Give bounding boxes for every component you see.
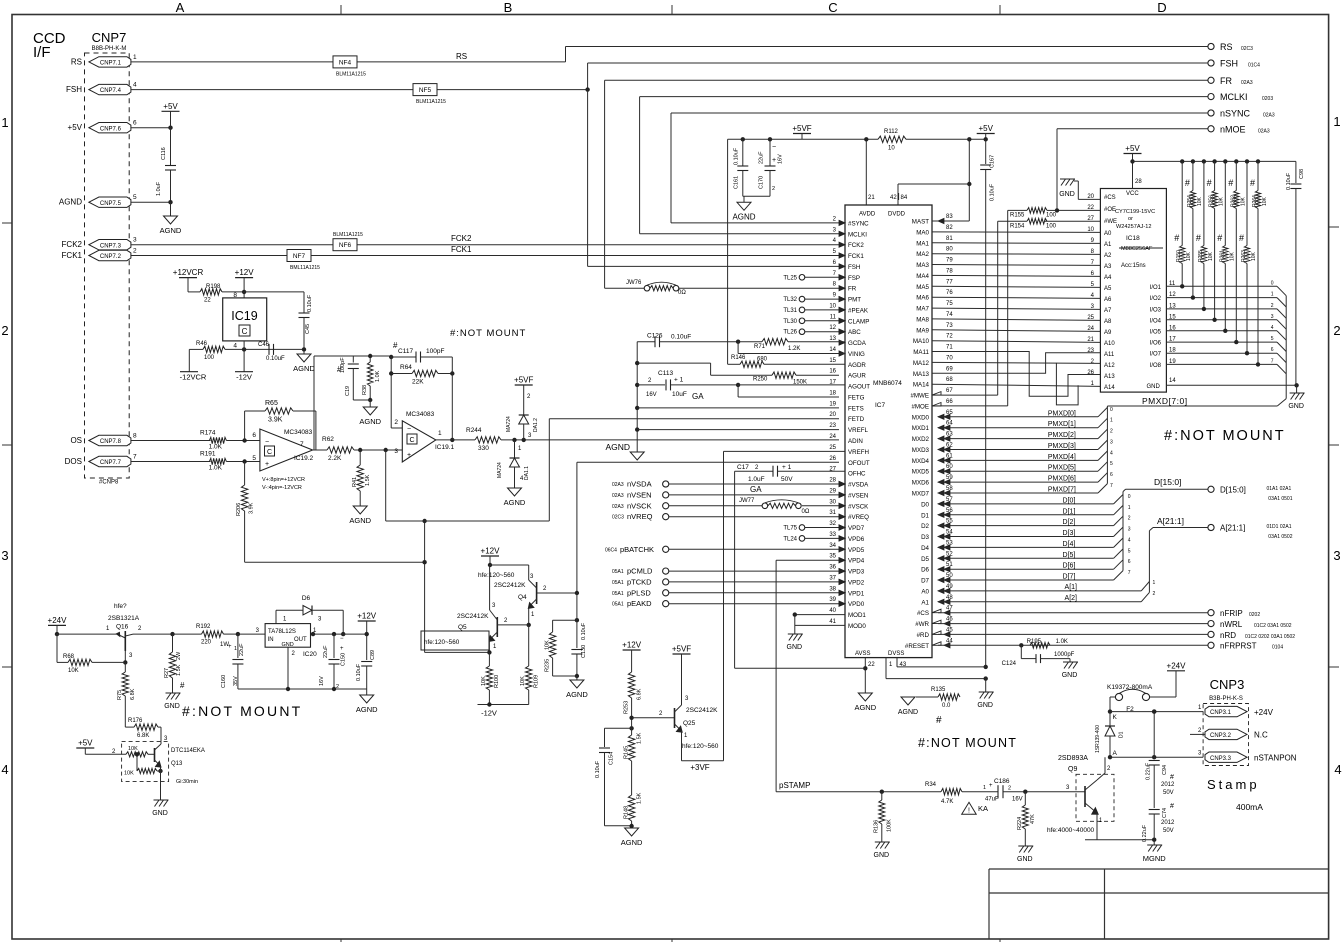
svg-text:hfe:120~560: hfe:120~560: [424, 639, 460, 646]
svg-text:FCK2: FCK2: [451, 234, 472, 243]
wire Q25 emitter to +3VF / VREFH: [681, 731, 683, 761]
svg-text:R154: R154: [1010, 223, 1025, 229]
svg-text:I/O2: I/O2: [1150, 296, 1162, 302]
svg-text:A13: A13: [1104, 374, 1115, 380]
svg-text:#WR: #WR: [915, 621, 929, 628]
wire AGND from CNP7.5: [131, 201, 171, 203]
svg-text:I/O4: I/O4: [1150, 318, 1162, 324]
resistor R68 10K: [56, 634, 58, 662]
svg-text:nSTANPON: nSTANPON: [1254, 753, 1297, 762]
power +12V (IC20 out): [358, 620, 376, 622]
svg-text:Q5: Q5: [458, 624, 467, 631]
svg-text:GND: GND: [787, 644, 803, 651]
svg-text:#RD: #RD: [917, 632, 930, 639]
svg-text:C98: C98: [1299, 169, 1305, 179]
wire OFOUT row to C130: [577, 461, 839, 463]
svg-text:AGND: AGND: [349, 516, 371, 525]
svg-text:1.0uF: 1.0uF: [156, 181, 162, 196]
svg-text:C19: C19: [345, 386, 351, 396]
svg-text:0Ω: 0Ω: [802, 509, 810, 515]
svg-text:74: 74: [946, 312, 953, 318]
svg-text:0.10uF: 0.10uF: [356, 663, 362, 681]
wire nRD: [938, 633, 1208, 635]
capacitor C17 1.0uF 50V (OFHC): [734, 471, 736, 668]
svg-text:38: 38: [829, 586, 836, 592]
capacitor C94 0.22uF 2012 50V: [1153, 712, 1155, 759]
wire D5 / D[5]: [938, 557, 1114, 559]
resistor R71 1.2K (GCDA): [738, 341, 762, 343]
svg-text:MA11: MA11: [913, 349, 929, 356]
resistor R250 150K (AGUR): [772, 372, 796, 378]
svg-text:MA8: MA8: [916, 316, 929, 323]
svg-text:22uF: 22uF: [239, 643, 245, 656]
svg-text:VPD1: VPD1: [848, 590, 865, 597]
svg-text:R109: R109: [534, 675, 540, 688]
svg-text:#:NOT MOUNT: #:NOT MOUNT: [1164, 428, 1286, 444]
wire pSTAMP: [776, 791, 941, 793]
svg-text:GA: GA: [692, 392, 704, 401]
svg-text:80: 80: [946, 247, 953, 253]
power +5VF (Q25): [673, 653, 691, 655]
svg-text:6: 6: [1110, 472, 1113, 478]
svg-text:TL31: TL31: [783, 308, 797, 314]
svg-text:MA1: MA1: [916, 240, 929, 247]
svg-text:#:NOT MOUNT: #:NOT MOUNT: [450, 328, 526, 339]
svg-text:hfe:120~560: hfe:120~560: [682, 743, 719, 750]
svg-text:6.8K: 6.8K: [637, 688, 643, 700]
svg-text:67: 67: [946, 388, 953, 394]
svg-text:10uF: 10uF: [672, 391, 687, 398]
svg-text:A5: A5: [1104, 286, 1112, 292]
svg-text:70: 70: [946, 355, 953, 361]
svg-text:2: 2: [1271, 303, 1274, 309]
svg-text:R254: R254: [1187, 195, 1193, 207]
resistor R38 1.0K: [369, 356, 371, 362]
svg-text:DVSS: DVSS: [888, 651, 904, 657]
wire opamp out: [313, 449, 327, 451]
svg-text:23: 23: [829, 423, 836, 429]
ground AGND (R148): [625, 828, 639, 836]
svg-text:FR: FR: [1220, 76, 1232, 86]
svg-text:B: B: [504, 0, 513, 15]
svg-text:19: 19: [829, 401, 836, 407]
svg-text:D3: D3: [921, 534, 929, 541]
svg-text:-12V: -12V: [481, 709, 497, 718]
svg-text:2W: 2W: [176, 651, 182, 660]
svg-text:+: +: [265, 461, 269, 468]
DVDD stem pins 42 84: [897, 184, 899, 205]
svg-text:100pF: 100pF: [426, 348, 444, 355]
svg-text:5: 5: [133, 194, 137, 201]
Q13 input resistor 10K: [126, 752, 148, 757]
svg-text:D5: D5: [921, 556, 929, 563]
svg-text:C124: C124: [1002, 661, 1017, 667]
svg-text:R46: R46: [196, 341, 208, 347]
bus ramp I/O6 bit 5: [1277, 342, 1286, 351]
svg-text:1: 1: [234, 646, 237, 652]
wire MXD6 / PMXD[6]: [938, 481, 1098, 483]
svg-text:C186: C186: [994, 778, 1010, 785]
svg-text:R41: R41: [352, 477, 358, 487]
svg-text:#SYNC: #SYNC: [848, 220, 869, 227]
svg-text:-12V: -12V: [236, 373, 252, 382]
svg-text:37: 37: [829, 575, 836, 581]
svg-text:3.9K: 3.9K: [249, 502, 255, 514]
svg-text:#: #: [1217, 233, 1222, 243]
svg-text:2: 2: [1008, 786, 1011, 792]
svg-text:C17: C17: [737, 464, 749, 471]
svg-text:22K: 22K: [412, 379, 424, 386]
capacitor C150 22uF 16V: [333, 634, 335, 658]
svg-text:A9: A9: [1104, 330, 1112, 336]
bus ramp I/O3 bit 2: [1277, 309, 1286, 318]
svg-text:hfe:120~560: hfe:120~560: [478, 572, 515, 579]
wire MA14 to A14: [932, 384, 1100, 386]
svg-text:A2: A2: [1104, 253, 1112, 259]
svg-text:D[1]: D[1]: [1063, 508, 1076, 515]
resistor R256 10K pullup: [1212, 159, 1216, 163]
svg-text:D[2]: D[2]: [1063, 519, 1076, 526]
svg-text:−: −: [772, 144, 776, 151]
svg-text:MXD5: MXD5: [912, 469, 930, 476]
svg-text:#MOE: #MOE: [911, 404, 929, 411]
bus ramp I/O8 bit 7: [1277, 364, 1286, 373]
svg-text:2SB1321A: 2SB1321A: [108, 615, 140, 622]
svg-text:R155: R155: [1010, 213, 1025, 219]
svg-text:MOD1: MOD1: [848, 612, 866, 619]
Q16 collector wire: [133, 633, 173, 635]
wire GCDA node to VINIG: [737, 342, 739, 354]
svg-text:RS: RS: [71, 57, 82, 66]
svg-text:R235: R235: [545, 659, 551, 672]
svg-text:16V: 16V: [778, 154, 784, 164]
svg-text:GND: GND: [1017, 856, 1033, 863]
svg-text:1.5K: 1.5K: [637, 792, 643, 804]
svg-text:#: #: [1170, 803, 1174, 810]
power +12VCR: [179, 277, 197, 279]
svg-text:D0: D0: [921, 501, 929, 508]
resistor R192 220 1W: [202, 631, 224, 637]
svg-text:VPD5: VPD5: [848, 547, 865, 554]
svg-text:MXD6: MXD6: [912, 480, 930, 487]
wire FSH from CNP7.4: [131, 89, 413, 91]
svg-text:A: A: [1113, 750, 1118, 757]
svg-text:PMXD[4]: PMXD[4]: [1048, 454, 1076, 461]
svg-text:PMT: PMT: [848, 297, 861, 304]
connector pin CNP7.1 (RS): [89, 57, 131, 67]
svg-text:A[21:1]: A[21:1]: [1157, 516, 1184, 526]
svg-text:5: 5: [1110, 461, 1113, 467]
svg-text:AGOUT: AGOUT: [848, 384, 870, 391]
resistor R145 1.5K: [631, 726, 633, 735]
svg-text:K: K: [1113, 714, 1118, 721]
svg-text:PMXD[1]: PMXD[1]: [1048, 421, 1076, 428]
svg-text:68: 68: [946, 377, 953, 383]
resistor R195 1.0K: [1026, 636, 1082, 644]
wire D2 / D[2]: [938, 525, 1114, 527]
svg-text:I/O8: I/O8: [1150, 363, 1162, 369]
svg-text:26: 26: [829, 456, 836, 462]
svg-text:!: !: [968, 808, 970, 815]
svg-text:D1: D1: [1119, 731, 1125, 738]
svg-text:3: 3: [1333, 548, 1340, 563]
svg-text:AGND: AGND: [854, 703, 876, 712]
svg-text:GND: GND: [874, 852, 890, 859]
svg-text:RS: RS: [1220, 42, 1233, 52]
svg-text:AGND: AGND: [621, 838, 643, 847]
svg-text:MA4: MA4: [916, 273, 929, 280]
svg-text:pCMLD: pCMLD: [627, 567, 653, 576]
svg-text:D2: D2: [921, 523, 929, 530]
wire R155 to IC7 #MOE: [1007, 210, 1009, 406]
DVSS pin 1: [885, 658, 887, 679]
svg-text:BML11A1215: BML11A1215: [290, 265, 320, 271]
bus ramp I/O4 bit 3: [1277, 320, 1286, 329]
svg-text:OS: OS: [70, 436, 82, 445]
svg-text:−: −: [407, 426, 411, 433]
wire OS to R174: [131, 440, 211, 442]
svg-text:MGND: MGND: [1143, 854, 1166, 863]
svg-text:MCLKI: MCLKI: [848, 231, 867, 238]
svg-text:#: #: [1207, 178, 1212, 188]
svg-text:#CNP8: #CNP8: [99, 480, 119, 486]
svg-text:R255: R255: [1198, 250, 1204, 262]
Q13 transistor element: [154, 748, 156, 762]
svg-text:OUT: OUT: [294, 637, 307, 643]
svg-text:03A1 0501: 03A1 0501: [1268, 496, 1292, 502]
capacitor C186 47uF 16V: [997, 785, 999, 798]
svg-text:0.10uF: 0.10uF: [595, 760, 601, 778]
svg-text:hfe?: hfe?: [114, 603, 127, 610]
svg-text:-12VCR: -12VCR: [180, 373, 207, 382]
svg-text:#:NOT MOUNT: #:NOT MOUNT: [918, 736, 1017, 750]
svg-text:MXD2: MXD2: [912, 436, 930, 443]
svg-text:AGND: AGND: [732, 212, 755, 221]
resistor R41 1.5K to AGND: [359, 450, 361, 465]
svg-text:CNP7.7: CNP7.7: [100, 460, 122, 466]
svg-text:10K: 10K: [1262, 196, 1268, 206]
svg-text:AGND: AGND: [59, 198, 82, 207]
svg-text:DTC114EKA: DTC114EKA: [171, 748, 205, 754]
svg-text:10K: 10K: [520, 676, 526, 686]
wire MA5 to A5: [932, 286, 1100, 287]
svg-text:28: 28: [829, 478, 836, 484]
svg-text:D[0]: D[0]: [1063, 497, 1076, 504]
svg-text:01C2 03A1 0502: 01C2 03A1 0502: [1254, 623, 1292, 629]
ground GND (Q13): [154, 800, 169, 807]
svg-text:40: 40: [829, 608, 836, 614]
ground GND (R224): [1018, 846, 1033, 853]
svg-text:A11: A11: [1104, 352, 1115, 358]
svg-text:0.22uF: 0.22uF: [1142, 824, 1148, 842]
svg-text:MXD1: MXD1: [912, 425, 930, 432]
svg-text:MOD0: MOD0: [848, 623, 866, 630]
svg-text:or: or: [1128, 216, 1133, 222]
svg-text:0: 0: [1271, 280, 1274, 286]
svg-text:50V: 50V: [781, 476, 793, 483]
svg-text:Q25: Q25: [683, 720, 696, 727]
svg-text:FR: FR: [848, 286, 857, 293]
svg-text:A0: A0: [1104, 231, 1112, 237]
svg-text:Q9: Q9: [1068, 766, 1077, 773]
svg-text:72: 72: [946, 334, 953, 340]
capacitor C98 0.10uF: [1295, 161, 1297, 183]
power +12V (R253): [623, 649, 641, 651]
svg-text:I/F: I/F: [33, 44, 51, 61]
svg-text:400mA: 400mA: [1236, 802, 1263, 812]
svg-text:24: 24: [829, 434, 836, 440]
wire MA13 crossover: [932, 353, 1100, 374]
svg-text:2SC2412K: 2SC2412K: [494, 582, 526, 589]
grid ticks bottom: [340, 939, 342, 942]
svg-text:IC7: IC7: [875, 402, 886, 409]
svg-text:R253: R253: [624, 701, 630, 714]
svg-text:77: 77: [946, 279, 953, 285]
wire MXD0 / PMXD[0]: [938, 416, 1098, 418]
svg-text:#MWE: #MWE: [910, 393, 929, 400]
terminal A[21:1]: [1208, 524, 1214, 530]
svg-text:R206: R206: [236, 503, 242, 516]
svg-text:10K: 10K: [1219, 196, 1225, 206]
svg-text:pEAKD: pEAKD: [627, 599, 652, 608]
power +5VF (diode clamp): [515, 384, 533, 386]
svg-text:100: 100: [1046, 213, 1057, 219]
bus ramp I/O7 bit 6: [1277, 353, 1286, 362]
svg-text:MCLKI: MCLKI: [1220, 92, 1248, 102]
svg-text:GND: GND: [1059, 191, 1075, 198]
wire nWRL: [938, 623, 1208, 625]
wire MOD1/MOD0 to GND: [795, 614, 845, 616]
svg-text:D[4]: D[4]: [1063, 541, 1076, 548]
svg-text:1: 1: [1128, 505, 1131, 511]
svg-text:16V: 16V: [319, 676, 325, 686]
ground MGND: [1152, 838, 1156, 842]
resistor R244 330: [475, 437, 501, 443]
svg-text:CNP3.3: CNP3.3: [1210, 756, 1232, 762]
svg-text:02A3: 02A3: [1258, 128, 1270, 134]
svg-text:0.10uF: 0.10uF: [581, 622, 587, 640]
svg-text:42: 42: [890, 195, 897, 201]
svg-text:R34: R34: [925, 782, 937, 788]
wire DOS to R191: [131, 461, 211, 463]
svg-text:05A1: 05A1: [612, 580, 624, 586]
svg-text:GND: GND: [1062, 672, 1078, 679]
+5V pullup rail: [1133, 160, 1296, 162]
svg-text:14: 14: [1169, 378, 1176, 384]
svg-text:32: 32: [829, 521, 836, 527]
svg-text:A6: A6: [1104, 297, 1112, 303]
svg-text:+5VF: +5VF: [792, 124, 811, 133]
svg-text:16V: 16V: [1012, 797, 1023, 803]
svg-text:0.10uF: 0.10uF: [266, 356, 285, 362]
terminal D[15:0]: [1208, 486, 1214, 492]
svg-text:C: C: [828, 0, 837, 15]
svg-text:2: 2: [394, 419, 398, 426]
ground AGND (DA1.1): [508, 488, 522, 496]
terminal nRD: [1208, 631, 1214, 637]
svg-text:C150: C150: [341, 653, 347, 666]
svg-text:R38: R38: [362, 385, 368, 395]
grid ticks right: [1329, 226, 1339, 228]
svg-text:B8B-PH-K-M: B8B-PH-K-M: [92, 46, 127, 52]
svg-text:100K: 100K: [887, 819, 893, 832]
IC20 output wire: [311, 633, 367, 635]
svg-text:PMXD[6]: PMXD[6]: [1048, 476, 1076, 483]
svg-text:CNP3: CNP3: [1210, 677, 1245, 692]
IC U7 MNB6074 body: [845, 205, 932, 658]
title block: [989, 868, 1329, 870]
wire MA12 to A12: [932, 362, 1100, 363]
svg-text:2: 2: [1128, 516, 1131, 522]
ground AGND (AVSS): [864, 668, 866, 693]
wire R206 node down to Q5 emitter: [424, 562, 426, 652]
svg-text:15: 15: [829, 358, 836, 364]
wire A1 / A[2]: [938, 601, 1141, 603]
svg-text:6: 6: [1271, 347, 1274, 353]
svg-text:01A1 02A1: 01A1 02A1: [1267, 486, 1292, 492]
svg-text:1: 1: [1153, 580, 1156, 586]
svg-text:DA1.1: DA1.1: [524, 466, 530, 480]
svg-text:FCK1: FCK1: [848, 253, 864, 260]
svg-text:22uF: 22uF: [323, 645, 329, 658]
svg-text:+5V: +5V: [78, 739, 93, 748]
wire opamp1 out / R244: [436, 439, 475, 441]
wire nFRPRST: [938, 644, 1208, 646]
ground AGND (R135): [901, 697, 915, 705]
power -12V (IC19): [235, 371, 253, 373]
svg-text:#VREQ: #VREQ: [848, 514, 869, 521]
resistor R100 10K: [488, 652, 490, 666]
wire MAST pin83 stub: [932, 220, 938, 222]
svg-text:06C4: 06C4: [605, 547, 617, 553]
svg-text:MA0: MA0: [916, 229, 929, 236]
+5VF rail: [728, 138, 878, 140]
svg-text:0Ω: 0Ω: [678, 290, 686, 296]
svg-text:#:NOT MOUNT: #:NOT MOUNT: [182, 703, 302, 719]
svg-text:66: 66: [946, 399, 953, 405]
svg-text:50V: 50V: [1163, 828, 1174, 834]
svg-text:R224: R224: [1017, 817, 1023, 830]
svg-text:Stamp: Stamp: [1207, 777, 1260, 792]
svg-text:MNB6074: MNB6074: [873, 380, 902, 387]
svg-text:R100: R100: [494, 675, 500, 688]
svg-text:R174: R174: [200, 430, 216, 437]
capacitor C161 0.10uF: [741, 137, 745, 141]
svg-text:A[1]: A[1]: [1065, 584, 1078, 591]
svg-text:2SC2412K: 2SC2412K: [457, 613, 489, 620]
svg-text:CNP3.1: CNP3.1: [1210, 710, 1232, 716]
svg-text:I/O3: I/O3: [1150, 307, 1162, 313]
svg-text:+: +: [772, 157, 776, 164]
svg-text:10K: 10K: [545, 640, 551, 650]
svg-text:+12V: +12V: [622, 641, 642, 650]
connector pin CNP7.3 (FCK2): [89, 240, 131, 250]
svg-text:R198: R198: [206, 284, 221, 290]
power +5V (Q13): [76, 747, 94, 749]
svg-text:V+:8pin=+12VCR: V+:8pin=+12VCR: [262, 477, 305, 483]
svg-text:CNP7.3: CNP7.3: [100, 243, 122, 249]
svg-text:3: 3: [1271, 314, 1274, 320]
svg-text:C74: C74: [1162, 808, 1168, 818]
svg-text:FCK2: FCK2: [62, 240, 83, 249]
wire RS from CNP7.1: [131, 61, 333, 63]
svg-text:0.10uF: 0.10uF: [990, 183, 996, 201]
svg-text:TL24: TL24: [783, 537, 797, 543]
svg-text:R145: R145: [624, 746, 630, 759]
svg-text:03A1 0502: 03A1 0502: [1268, 534, 1292, 540]
svg-text:CNP7.2: CNP7.2: [100, 254, 122, 260]
svg-text:NF6: NF6: [339, 242, 352, 249]
